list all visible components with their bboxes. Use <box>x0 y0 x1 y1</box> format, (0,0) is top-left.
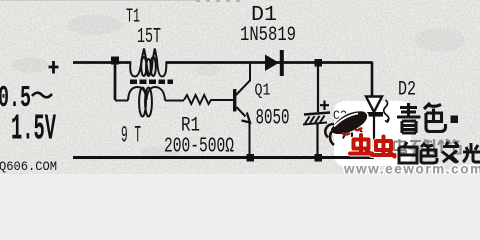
svg-text:200-500Ω: 200-500Ω <box>164 136 234 159</box>
paper background <box>0 0 480 174</box>
capacitor C2 top plate <box>304 113 330 115</box>
label qing se black characters <box>397 103 446 133</box>
wire right vertical to D2 <box>371 62 374 98</box>
scan edge artifact top <box>0 0 200 2</box>
label tilde wave <box>32 93 52 98</box>
svg-text:1N5819: 1N5819 <box>240 24 296 47</box>
watermark chongchong red characters <box>350 135 395 157</box>
transistor Q1 emitter lead <box>236 107 249 157</box>
LED D2 triangle <box>366 97 382 113</box>
transistor Q1 collector lead <box>236 62 250 95</box>
svg-text:9 T: 9 T <box>121 123 141 149</box>
LED D2 emission squiggle <box>384 100 389 122</box>
node B junction dot top right <box>315 59 323 67</box>
transformer T1 core dashes <box>130 80 173 85</box>
svg-text:8050: 8050 <box>256 106 290 131</box>
label middle dot <box>451 116 459 124</box>
transistor Q1 emitter arrow <box>242 113 251 123</box>
LED D2 cathode bar <box>364 112 384 117</box>
svg-text:T1: T1 <box>126 6 140 28</box>
wire top horizontal <box>73 61 131 64</box>
capacitor C2 top lead <box>317 65 319 112</box>
wire bottom horizontal <box>73 156 374 159</box>
wire peek below stamp <box>341 156 350 158</box>
node D junction dot bottom capacitor <box>315 154 323 162</box>
svg-text:15T: 15T <box>137 26 161 49</box>
svg-text:D2: D2 <box>398 79 416 102</box>
svg-text:Q606.COM: Q606.COM <box>0 159 57 174</box>
LED D2 bottom lead <box>373 117 375 158</box>
label bai se fa guang black characters <box>399 142 480 164</box>
svg-text:www.eeworm.com: www.eeworm.com <box>343 162 480 175</box>
svg-text:Q1: Q1 <box>255 82 271 101</box>
capacitor C2 bottom lead <box>316 124 318 155</box>
transformer T1 secondary winding 9T <box>115 87 184 117</box>
capacitor C2 hatched bottom plate <box>303 116 327 125</box>
wire left branch vertical from node A <box>114 62 117 100</box>
watermark gray site characters <box>394 139 461 156</box>
resistor R1 zigzag <box>184 95 233 104</box>
svg-text:1.5V: 1.5V <box>11 109 56 150</box>
transformer T1 primary winding 15T <box>130 49 166 77</box>
svg-text:R1: R1 <box>181 115 200 138</box>
wire top horizontal right of T1 <box>166 61 372 64</box>
watermark white badge <box>334 101 411 166</box>
diode D1 triangle <box>265 55 279 72</box>
node C junction dot bottom emitter <box>247 154 255 162</box>
transistor Q1 base bar <box>233 89 236 112</box>
node A junction dot <box>111 57 119 65</box>
plus terminal <box>49 61 59 74</box>
diode D1 cathode bar <box>280 50 284 76</box>
capacitor C2 plus sign <box>320 101 329 111</box>
watermark beetle icon <box>325 111 367 145</box>
